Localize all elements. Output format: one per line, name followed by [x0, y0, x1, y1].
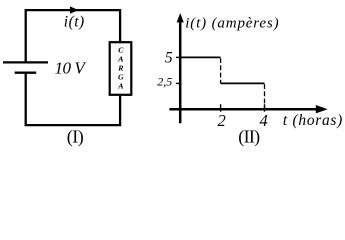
svg-text:A: A: [117, 55, 123, 64]
dashed drop at t=2: [220, 58, 222, 83]
svg-text:(I): (I): [67, 127, 84, 148]
svg-text:t (horas): t (horas): [283, 112, 342, 129]
svg-text:G: G: [118, 73, 124, 82]
svg-text:2: 2: [217, 111, 225, 130]
wire bottom (battery - to load, with corners): [26, 73, 120, 125]
svg-text:A: A: [117, 82, 123, 91]
dashed drop at t=4: [264, 84, 266, 109]
wire top (battery + to load, with corners): [26, 10, 120, 62]
battery V1 short plate (-): [15, 71, 37, 73]
graph y-axis: [179, 22, 182, 124]
svg-text:2,5: 2,5: [157, 75, 172, 89]
y tick at 5: [176, 56, 180, 58]
current step level 5A segment: [180, 56, 220, 58]
svg-text:i(t): i(t): [64, 14, 84, 31]
y tick at 2,5: [176, 82, 180, 84]
x tick at 2: [220, 104, 222, 112]
svg-text:4: 4: [259, 111, 267, 130]
load box CARGA: [110, 42, 132, 95]
svg-text:(II): (II): [238, 127, 260, 148]
x tick at 4: [264, 104, 266, 112]
svg-text:i(t) (ampères): i(t) (ampères): [185, 16, 278, 32]
graph x-axis arrowhead: [316, 105, 328, 113]
current arrow: [70, 6, 79, 13]
graph x-axis: [169, 108, 317, 111]
graph y-axis arrowhead: [177, 13, 184, 22]
battery V1 long plate (+): [3, 61, 48, 63]
svg-text:5: 5: [165, 50, 173, 67]
svg-text:C: C: [118, 46, 124, 55]
svg-text:R: R: [117, 64, 123, 73]
current step level 2,5A segment: [221, 82, 265, 84]
svg-text:10 V: 10 V: [55, 58, 88, 77]
